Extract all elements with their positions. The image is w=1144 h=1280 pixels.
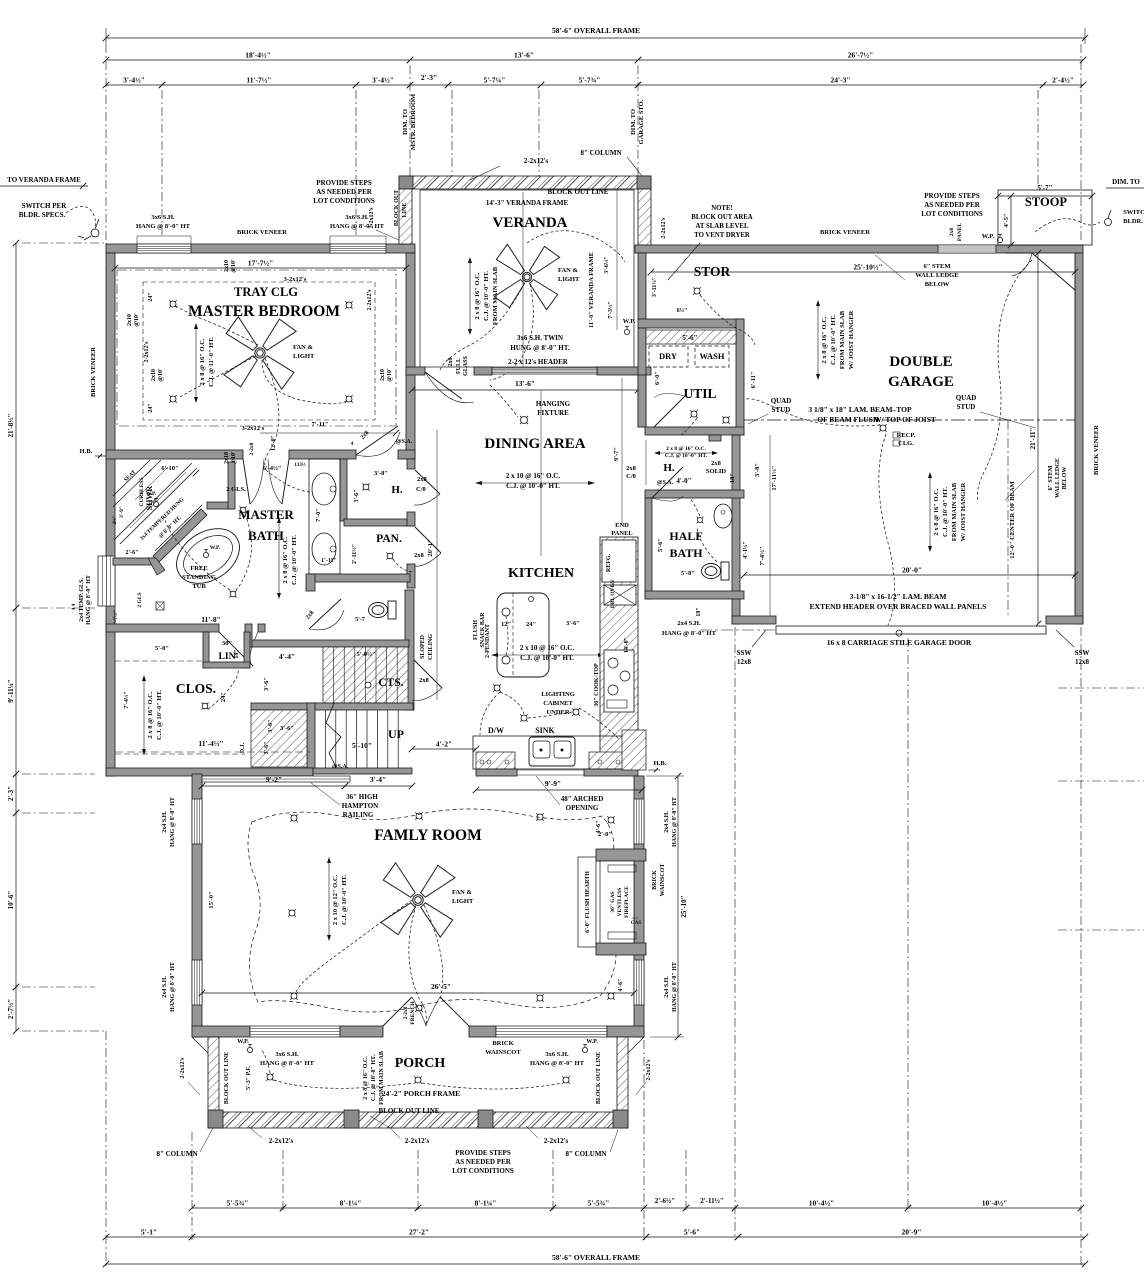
svg-text:C.J. @ 10'-0" HT.: C.J. @ 10'-0" HT. — [483, 271, 490, 321]
svg-text:STUD: STUD — [957, 403, 976, 411]
svg-text:24": 24" — [526, 621, 536, 628]
veranda column top-right — [637, 176, 651, 189]
svg-text:24'-3": 24'-3" — [831, 76, 851, 85]
fireplace — [578, 857, 596, 947]
svg-text:CABINET: CABINET — [543, 700, 573, 707]
svg-text:WALL LEDGE: WALL LEDGE — [1055, 458, 1061, 498]
svg-text:1'-11": 1'-11" — [321, 558, 337, 564]
svg-text:3'-9": 3'-9" — [119, 506, 125, 518]
svg-text:LOT CONDITIONS: LOT CONDITIONS — [921, 210, 983, 218]
svg-text:2-2x12's: 2-2x12's — [524, 157, 549, 165]
svg-text:7'-0": 7'-0" — [315, 508, 322, 522]
svg-text:SHWR: SHWR — [145, 486, 154, 511]
svg-text:2-2x12's: 2-2x12's — [405, 1137, 430, 1145]
svg-text:2 x 8 @ 16" O.C.: 2 x 8 @ 16" O.C. — [282, 536, 289, 583]
svg-text:3'-6": 3'-6" — [280, 725, 294, 732]
svg-text:HAMPTON: HAMPTON — [342, 802, 378, 810]
svg-text:W/ TOP OF JOIST: W/ TOP OF JOIST — [874, 415, 936, 424]
svg-text:HUNG @ 8'-0" HT.: HUNG @ 8'-0" HT. — [510, 344, 570, 352]
shower seat diagonals — [113, 460, 150, 496]
pantry door — [415, 527, 441, 553]
dim 25'-10 1/2 garage — [651, 271, 1075, 273]
svg-text:C.J. @ 10'-0" HT.: C.J. @ 10'-0" HT. — [830, 315, 837, 365]
kitchen island — [497, 593, 549, 677]
svg-text:17'-11½": 17'-11½" — [771, 465, 778, 490]
svg-text:AS NEEDED PER: AS NEEDED PER — [924, 201, 981, 209]
svg-text:@10': @10' — [387, 368, 393, 382]
svg-text:8" COLUMN: 8" COLUMN — [565, 1150, 606, 1158]
svg-text:DINING AREA: DINING AREA — [484, 436, 585, 452]
garage door — [776, 626, 1046, 634]
svg-text:8'-1¼": 8'-1¼" — [340, 1199, 362, 1208]
svg-text:2-2x12's: 2-2x12's — [180, 1057, 186, 1079]
svg-text:3'-4½": 3'-4½" — [123, 76, 145, 85]
svg-text:3-2x12's: 3-2x12's — [284, 276, 307, 283]
porch slab hatched band — [208, 1112, 628, 1128]
h closet bottom wall — [344, 519, 414, 526]
svg-text:16 x 8 CARRIAGE STILE GARAGE D: 16 x 8 CARRIAGE STILE GARAGE DOOR — [827, 638, 972, 647]
svg-text:5'-0½": 5'-0½" — [357, 651, 376, 658]
svg-text:HANG @ 8'-0" HT: HANG @ 8'-0" HT — [170, 962, 176, 1012]
half bath sink — [714, 504, 732, 528]
stair bottom wall — [313, 768, 412, 774]
closet dashed rod lines — [115, 753, 245, 755]
svg-text:4'-6": 4'-6" — [596, 821, 602, 834]
svg-text:2'-4½": 2'-4½" — [1052, 76, 1074, 85]
dim 9'-2 / 3'-4 — [202, 785, 345, 787]
svg-text:2x8: 2x8 — [419, 677, 430, 684]
svg-text:8" COLUMN: 8" COLUMN — [580, 149, 621, 157]
shower glass diagonal double — [114, 463, 192, 540]
svg-text:UNDER: UNDER — [546, 709, 569, 716]
svg-text:H.B.: H.B. — [80, 448, 93, 455]
svg-text:24": 24" — [148, 403, 154, 412]
svg-text:REFG.: REFG. — [606, 553, 612, 572]
svg-text:QUAD: QUAD — [771, 397, 792, 405]
svg-text:KITCHEN: KITCHEN — [508, 566, 574, 581]
shower niche walls — [207, 502, 234, 509]
svg-text:DBL OVEN: DBL OVEN — [610, 580, 616, 608]
svg-text:2 x 8 @ 16" O.C.: 2 x 8 @ 16" O.C. — [933, 488, 940, 535]
recp clg — [880, 425, 886, 431]
util lights — [691, 411, 697, 417]
svg-text:2-2x12's: 2-2x12's — [269, 1137, 294, 1145]
svg-text:SNACK BAR: SNACK BAR — [480, 612, 486, 648]
east wall cts — [405, 590, 414, 710]
svg-text:2 x 8 @ 16" O.C.: 2 x 8 @ 16" O.C. — [147, 691, 154, 738]
svg-text:25'-10": 25'-10" — [680, 895, 688, 917]
svg-text:BATH: BATH — [248, 528, 284, 543]
svg-text:CEILING: CEILING — [428, 634, 434, 660]
dimension row 3 top — [106, 84, 162, 86]
family room left wall — [192, 774, 202, 1037]
wires master bedroom — [176, 306, 258, 345]
svg-text:133½: 133½ — [294, 463, 306, 468]
svg-text:BRICK VENEER: BRICK VENEER — [820, 229, 870, 236]
svg-text:@10': @10' — [134, 313, 140, 327]
toilet master — [369, 601, 397, 619]
svg-text:2x10: 2x10 — [380, 369, 386, 381]
svg-text:GARAGE STO.: GARAGE STO. — [638, 99, 645, 144]
garage west wall lower — [732, 435, 740, 624]
wall B toilet-cts — [245, 640, 409, 647]
garage right wall inner line — [1074, 253, 1076, 624]
svg-text:2'-11½": 2'-11½" — [351, 544, 358, 564]
svg-text:2-2x12's: 2-2x12's — [661, 217, 667, 239]
closet light + wire — [202, 703, 208, 709]
half bath top wall — [645, 490, 744, 498]
svg-text:WASH: WASH — [699, 351, 724, 361]
dw hatch — [476, 752, 515, 769]
svg-text:HANG @ 8'-0" HT: HANG @ 8'-0" HT — [672, 962, 678, 1012]
svg-text:2-2x12's: 2-2x12's — [544, 1137, 569, 1145]
svg-text:2'-6": 2'-6" — [126, 550, 139, 556]
svg-text:FULL: FULL — [456, 358, 462, 374]
svg-text:DIM. TO: DIM. TO — [402, 109, 409, 135]
garage bottom wall left segment — [732, 616, 776, 624]
svg-text:D/W: D/W — [488, 726, 504, 735]
svg-text:4'-6": 4'-6" — [618, 979, 624, 992]
svg-text:HANG @ 8'-0" HT: HANG @ 8'-0" HT — [662, 630, 717, 637]
svg-text:2'-6½": 2'-6½" — [655, 1197, 676, 1205]
svg-text:DIM. TO: DIM. TO — [1112, 178, 1140, 186]
half bath bottom wall — [645, 591, 744, 599]
dimension row 2 top — [106, 59, 410, 61]
svg-text:DOUBLE: DOUBLE — [889, 354, 952, 370]
svg-text:7'-3½": 7'-3½" — [607, 301, 614, 319]
util door — [654, 396, 685, 427]
veranda right hatched wall — [638, 189, 651, 245]
svg-text:24'-2" PORCH FRAME: 24'-2" PORCH FRAME — [382, 1089, 460, 1098]
svg-text:5'-0": 5'-0" — [155, 645, 169, 652]
svg-text:PORCH: PORCH — [395, 1056, 446, 1071]
svg-text:SSW: SSW — [737, 649, 752, 657]
svg-text:BRICK: BRICK — [652, 870, 658, 890]
svg-text:H.: H. — [391, 484, 403, 496]
switch symbol top-right — [1105, 219, 1112, 226]
wall A bath-closet — [106, 624, 219, 632]
svg-text:36" HIGH: 36" HIGH — [346, 793, 378, 801]
svg-text:36" COOK-TOP: 36" COOK-TOP — [594, 663, 600, 707]
svg-text:PANEL: PANEL — [957, 223, 963, 242]
svg-text:PROVIDE STEPS: PROVIDE STEPS — [316, 179, 372, 187]
bottom extension lines — [105, 1031, 107, 1266]
right dash-dot extension lines — [1058, 687, 1144, 689]
svg-text:@10': @10' — [231, 259, 237, 273]
svg-text:RAILING: RAILING — [343, 811, 374, 819]
svg-text:SSW: SSW — [1075, 649, 1090, 657]
svg-text:FRENCH: FRENCH — [410, 1001, 416, 1025]
closet door in wall A — [219, 632, 253, 666]
svg-text:2-2x8: 2-2x8 — [249, 442, 255, 455]
fan blades family room — [381, 863, 455, 937]
svg-text:LOT CONDITIONS: LOT CONDITIONS — [452, 1167, 514, 1175]
svg-text:3'-8": 3'-8" — [754, 463, 761, 477]
porch corner diagonals — [192, 1037, 208, 1053]
svg-text:2x4 S.H.: 2x4 S.H. — [162, 976, 168, 998]
svg-text:W.P.: W.P. — [237, 1039, 249, 1045]
dining west wall blocks — [407, 459, 415, 469]
label 20'-0 — [744, 574, 1075, 576]
svg-text:CTS.: CTS. — [378, 677, 403, 689]
svg-text:5'-10": 5'-10" — [352, 741, 372, 750]
svg-text:2 x 10 @ 16" O.C.: 2 x 10 @ 16" O.C. — [506, 472, 560, 480]
svg-text:BLDR.: BLDR. — [1123, 218, 1143, 225]
toilet room top wall — [309, 574, 410, 582]
svg-text:6" STEM: 6" STEM — [924, 263, 951, 270]
svg-text:5'-6": 5'-6" — [682, 334, 697, 342]
window left of stoop — [938, 245, 996, 253]
svg-text:LIGHTING: LIGHTING — [541, 691, 575, 698]
svg-text:11'-7½": 11'-7½" — [246, 76, 271, 85]
svg-text:2x4 S.H.: 2x4 S.H. — [677, 620, 701, 627]
veranda inner frame — [420, 190, 634, 367]
svg-text:27'-2": 27'-2" — [409, 1228, 429, 1237]
switch symbol top-left — [91, 229, 99, 237]
svg-text:SOLID: SOLID — [706, 468, 727, 475]
svg-text:SWITC: SWITC — [1123, 209, 1144, 216]
svg-text:W/ JOIST HANGER: W/ JOIST HANGER — [848, 310, 855, 369]
svg-text:C/0: C/0 — [626, 473, 636, 480]
svg-text:36" GAS: 36" GAS — [610, 891, 616, 912]
garage door top right panel — [1032, 253, 1075, 290]
svg-text:C/0: C/0 — [416, 486, 426, 493]
stor light — [694, 288, 700, 294]
svg-text:LIGHT: LIGHT — [293, 353, 315, 360]
dim 4'-2 — [412, 748, 476, 750]
svg-text:BLOCK OUT LINE: BLOCK OUT LINE — [548, 188, 609, 196]
svg-text:C.J. @ 10'-0" HT.: C.J. @ 10'-0" HT. — [341, 875, 348, 925]
svg-text:BELOW: BELOW — [1062, 467, 1068, 490]
wall below cts — [251, 703, 413, 710]
lin closet walls — [203, 632, 209, 668]
island pendants — [502, 608, 510, 616]
svg-text:9'-7": 9'-7" — [613, 447, 620, 461]
svg-text:10'-4½": 10'-4½" — [809, 1199, 835, 1208]
porch right wall hatched — [617, 1037, 628, 1113]
closet dashed line bottom — [115, 751, 310, 753]
svg-text:C.J. @ 10'-0" HT.: C.J. @ 10'-0" HT. — [942, 487, 949, 537]
svg-text:26'-7½": 26'-7½" — [848, 51, 874, 60]
svg-text:13'-6": 13'-6" — [515, 379, 535, 388]
svg-text:5'-3" P.F.: 5'-3" P.F. — [246, 1066, 252, 1090]
svg-text:5'-6": 5'-6" — [657, 538, 664, 552]
svg-text:4 4: 4 4 — [72, 603, 77, 610]
svg-text:18": 18" — [729, 473, 736, 483]
svg-text:BLOCK OUT LINE: BLOCK OUT LINE — [596, 1052, 602, 1104]
svg-text:2x8: 2x8 — [949, 228, 955, 237]
hatch left of stairwell — [251, 710, 307, 767]
svg-text:W.P.: W.P. — [210, 545, 221, 551]
veranda bottom window header — [492, 368, 597, 374]
stoop — [998, 190, 1092, 245]
toilet half bath — [702, 562, 730, 580]
master bedroom bottom wall — [106, 450, 243, 459]
svg-text:HANG @ 8'-0" HT: HANG @ 8'-0" HT — [86, 575, 92, 625]
shower floor drain lines — [135, 467, 168, 500]
extension line through dining — [540, 391, 542, 556]
stor bottom wall — [638, 319, 744, 328]
svg-text:PROVIDE STEPS: PROVIDE STEPS — [924, 192, 980, 200]
svg-text:FROM MAIN SLAB: FROM MAIN SLAB — [839, 310, 846, 369]
closet bottom wall — [106, 768, 313, 776]
svg-text:LOT CONDITIONS: LOT CONDITIONS — [313, 197, 375, 205]
svg-text:LIGHT: LIGHT — [452, 898, 474, 905]
svg-text:18": 18" — [234, 649, 240, 658]
half bath door — [652, 467, 683, 498]
svg-text:5'-7¼": 5'-7¼" — [484, 76, 506, 85]
svg-text:7'-11": 7'-11" — [312, 421, 329, 428]
family room bottom window right — [496, 1026, 607, 1037]
svg-text:HANG @ 8'-0" HT: HANG @ 8'-0" HT — [330, 223, 385, 230]
dining-utility wall — [638, 375, 646, 427]
svg-text:11'-4½": 11'-4½" — [198, 739, 223, 748]
svg-text:EXTEND HEADER OVER BRACED WALL: EXTEND HEADER OVER BRACED WALL PANELS — [810, 602, 987, 611]
svg-text:2x4 S.H.: 2x4 S.H. — [162, 811, 168, 833]
svg-text:MSTR. BEDROOM: MSTR. BEDROOM — [410, 94, 417, 150]
master bedroom left wall — [106, 253, 115, 776]
svg-text:STOOP: STOOP — [1025, 195, 1068, 209]
master bedroom top wall — [106, 244, 415, 253]
svg-text:20'-9": 20'-9" — [902, 1228, 922, 1237]
porch wires — [274, 1080, 414, 1088]
svg-text:BATH: BATH — [669, 546, 703, 560]
svg-text:4'-2": 4'-2" — [436, 740, 452, 749]
half bath light + wires — [698, 518, 703, 523]
svg-text:W.P.: W.P. — [982, 233, 995, 240]
svg-text:FROM MAIN SLAB: FROM MAIN SLAB — [492, 266, 499, 325]
svg-text:W.P.: W.P. — [586, 1039, 598, 1045]
svg-text:QUAD: QUAD — [956, 394, 977, 402]
svg-text:HANG @ 8'-0" HT: HANG @ 8'-0" HT — [170, 797, 176, 847]
svg-text:UTIL: UTIL — [683, 386, 716, 401]
svg-text:7'-4½": 7'-4½" — [123, 691, 130, 709]
svg-text:25'-10½": 25'-10½" — [853, 263, 882, 272]
cts hatched area — [323, 647, 408, 703]
kitchen se corner hatch — [622, 730, 646, 770]
svg-text:3'-11½": 3'-11½" — [651, 277, 658, 297]
veranda column top-left — [399, 176, 413, 189]
svg-text:2'-3": 2'-3" — [7, 786, 15, 801]
svg-text:2 x 10 @ 16" O.C.: 2 x 10 @ 16" O.C. — [520, 644, 574, 652]
svg-text:C.J. @ 11'-0" HT.: C.J. @ 11'-0" HT. — [208, 337, 215, 387]
svg-text:VERANDA: VERANDA — [493, 215, 568, 231]
dbl oven — [604, 585, 636, 605]
fan blades — [224, 317, 296, 389]
svg-text:W/ JOIST HANGER: W/ JOIST HANGER — [960, 482, 967, 541]
svg-text:BRICK: BRICK — [492, 1040, 513, 1047]
svg-text:H.B.: H.B. — [654, 760, 667, 767]
svg-text:15'-0": 15'-0" — [208, 891, 215, 908]
svg-text:WAINSCOT: WAINSCOT — [485, 1049, 521, 1056]
svg-text:PAN.: PAN. — [376, 533, 402, 545]
recessed lights master bedroom — [170, 301, 176, 307]
svg-text:58'-6" OVERALL FRAME: 58'-6" OVERALL FRAME — [552, 26, 640, 35]
svg-text:5'-8": 5'-8" — [681, 570, 695, 577]
vanity counter — [309, 459, 340, 574]
shower diagonal wall band — [153, 509, 207, 562]
svg-text:26'-5": 26'-5" — [431, 982, 451, 991]
svg-text:BLOCK OUT LINE: BLOCK OUT LINE — [224, 1052, 230, 1104]
svg-text:C.J. @ 10'-0" HT.: C.J. @ 10'-0" HT. — [291, 535, 298, 585]
svg-text:3x6 S.H.: 3x6 S.H. — [545, 1051, 569, 1058]
svg-text:CLOS.: CLOS. — [176, 681, 216, 696]
svg-text:BLDR. SPECS.: BLDR. SPECS. — [19, 211, 66, 219]
svg-text:BELOW: BELOW — [925, 281, 950, 288]
svg-text:2½": 2½" — [113, 515, 118, 524]
svg-text:OPENING: OPENING — [566, 804, 599, 812]
master bedroom tray ceiling dashed rect — [143, 282, 375, 420]
svg-text:BRICK VENEER: BRICK VENEER — [90, 347, 97, 397]
garage top wall — [635, 245, 1083, 253]
util counter hatch — [646, 330, 736, 344]
svg-text:8'-1¼": 8'-1¼" — [475, 1199, 497, 1208]
svg-text:6½": 6½" — [677, 307, 688, 314]
svg-text:OF BEAM FLUSH: OF BEAM FLUSH — [817, 415, 879, 424]
svg-text:3'-6": 3'-6" — [268, 720, 274, 733]
porch lights — [267, 1074, 273, 1080]
svg-text:CLG.: CLG. — [898, 440, 914, 447]
svg-text:AS NEEDED PER: AS NEEDED PER — [316, 188, 373, 196]
svg-text:SWITCH PER: SWITCH PER — [22, 202, 67, 210]
kitchen south wall — [476, 769, 517, 776]
family room left window 1 — [192, 799, 202, 844]
toilet room door — [309, 599, 341, 629]
svg-text:2 GLS.: 2 GLS. — [226, 486, 246, 493]
family room right wall — [634, 776, 644, 1037]
svg-text:HANG @ 8'-0" HT: HANG @ 8'-0" HT — [136, 223, 191, 230]
svg-text:BLOCK OUT LINE: BLOCK OUT LINE — [379, 1107, 440, 1115]
svg-text:10'-6": 10'-6" — [7, 891, 15, 910]
dim 13'-6 dining — [412, 389, 638, 391]
svg-text:GARAGE: GARAGE — [888, 374, 954, 390]
svg-text:2x4 S.H.: 2x4 S.H. — [664, 976, 670, 998]
right hatch — [589, 752, 624, 769]
svg-text:5'-1": 5'-1" — [141, 1228, 157, 1237]
svg-text:FLUSH: FLUSH — [473, 620, 479, 640]
window 2x4 temp gls master bath — [98, 556, 115, 606]
dim 25'-10 right — [677, 776, 679, 1037]
svg-text:FIREPLACE: FIREPLACE — [624, 886, 630, 918]
svg-text:2 x 8 @ 16" O.C.: 2 x 8 @ 16" O.C. — [821, 316, 828, 363]
svg-text:3-1/8" x 16-1/2" LAM. BEAM: 3-1/8" x 16-1/2" LAM. BEAM — [850, 592, 947, 601]
svg-text:@10': @10' — [158, 368, 164, 382]
svg-text:2-2x8: 2-2x8 — [403, 1006, 409, 1019]
svg-text:TUB: TUB — [192, 583, 206, 590]
svg-text:18'-4½": 18'-4½" — [245, 51, 271, 60]
svg-text:24": 24" — [220, 692, 227, 702]
floor drain — [156, 602, 164, 610]
family room ceiling cloud dashed — [248, 809, 616, 1012]
svg-text:6" STEM: 6" STEM — [1048, 465, 1054, 490]
svg-text:HANG @ 8'-0" HT: HANG @ 8'-0" HT — [672, 797, 678, 847]
svg-text:12x8: 12x8 — [737, 658, 752, 666]
svg-text:2x10: 2x10 — [151, 369, 157, 381]
dim 26'-5 — [202, 992, 634, 994]
bottom dim row A — [192, 1207, 283, 1209]
svg-text:FROM MAIN SLAB: FROM MAIN SLAB — [951, 482, 958, 541]
util east wall — [736, 319, 744, 435]
stoop door swing — [1005, 252, 1032, 254]
family room bottom window left — [250, 1026, 340, 1037]
svg-text:BLOCK OUT: BLOCK OUT — [394, 190, 400, 226]
svg-text:3'-6": 3'-6" — [566, 620, 580, 627]
porch left wall hatched — [208, 1037, 219, 1113]
svg-text:AS NEEDED PER: AS NEEDED PER — [455, 1158, 512, 1166]
svg-text:2x4 TEMP. GLS.: 2x4 TEMP. GLS. — [79, 578, 85, 622]
svg-text:6'-0": 6'-0" — [654, 371, 661, 385]
half bath left wall — [645, 498, 652, 599]
